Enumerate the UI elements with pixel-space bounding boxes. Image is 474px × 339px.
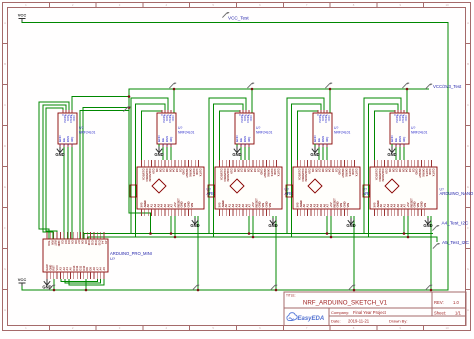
wire cell1 gnd stub bbox=[194, 216, 196, 218]
MCU module U8 ARDUINO_NANO bbox=[208, 160, 319, 216]
svg-text:H: H bbox=[467, 308, 469, 312]
svg-text:Company:: Company: bbox=[331, 310, 349, 315]
wire cell3 NRF bottom to nano bbox=[319, 147, 327, 160]
wire cell2 loop B bbox=[214, 104, 244, 237]
wire VCC_Test top rail / right side / bottom rail loop bbox=[22, 20, 448, 290]
svg-text:GND: GND bbox=[154, 152, 163, 157]
svg-text:GND: GND bbox=[55, 152, 64, 157]
svg-text:ARDUINO_NANO: ARDUINO_NANO bbox=[440, 191, 474, 196]
svg-text:VCC: VCC bbox=[327, 115, 331, 122]
wire NRF U2 loop A bbox=[39, 102, 69, 239]
svg-text:VCC_Test: VCC_Test bbox=[228, 16, 249, 21]
svg-text:1/1: 1/1 bbox=[455, 311, 461, 316]
MCU module U7 ARDUINO_NANO bbox=[130, 160, 241, 216]
svg-text:GND: GND bbox=[42, 285, 51, 290]
wire cell1 loop C bbox=[142, 110, 163, 160]
svg-text:E: E bbox=[467, 185, 469, 189]
svg-text:U?: U? bbox=[79, 126, 83, 130]
wire cell2 VCC drop from rail bbox=[251, 89, 253, 113]
title block bbox=[284, 292, 466, 326]
svg-text:2019-11-21: 2019-11-21 bbox=[348, 319, 370, 324]
wire cell1 A4 drop bbox=[170, 216, 172, 234]
wire cell4 A4 drop bbox=[403, 216, 405, 234]
wire cell4 5V drop bbox=[430, 216, 432, 290]
wire cell2 5V drop bbox=[275, 216, 277, 290]
ground NRF cell3 bbox=[310, 144, 319, 157]
RF module U3 NRF24L01 bbox=[157, 110, 195, 147]
wire cell4 loop C bbox=[375, 110, 396, 160]
wire cell2 NRF bottom to nano bbox=[241, 147, 249, 160]
svg-text:EasyEDA: EasyEDA bbox=[298, 316, 325, 322]
wire nano1 A4 pin to rail bbox=[150, 216, 152, 234]
svg-text:F: F bbox=[467, 226, 469, 230]
svg-text:D1/TX: D1/TX bbox=[431, 169, 435, 177]
svg-text:A5: A5 bbox=[102, 267, 106, 271]
svg-text:VIN: VIN bbox=[268, 203, 272, 208]
wire 3V3 drop to pro mini left bbox=[83, 108, 129, 240]
wire cell1 loop B bbox=[136, 104, 166, 237]
svg-text:TITLE:: TITLE: bbox=[286, 294, 296, 298]
svg-text:10: 10 bbox=[446, 3, 450, 7]
wire I2C A4 rail bbox=[84, 234, 433, 240]
svg-text:A5_Test_I2C: A5_Test_I2C bbox=[442, 240, 469, 245]
RF module U2 NRF24L01 bbox=[58, 110, 96, 147]
power flag VCC bottom left bbox=[18, 277, 27, 286]
ground nano cell1 bbox=[190, 218, 199, 228]
svg-text:GND: GND bbox=[268, 223, 277, 228]
svg-text:NRF24L01: NRF24L01 bbox=[79, 131, 96, 135]
svg-text:D: D bbox=[4, 144, 6, 148]
wire cell3 loop A bbox=[287, 98, 324, 234]
ground NRF U2 bbox=[55, 144, 64, 157]
svg-text:D1/TX: D1/TX bbox=[354, 169, 358, 177]
wire I2C A5 rail bbox=[88, 237, 437, 242]
svg-text:GND: GND bbox=[232, 152, 241, 157]
wire cell3 A4 drop bbox=[326, 216, 328, 234]
wire pro mini VCC pin to rail bbox=[53, 279, 55, 290]
svg-text:Date:: Date: bbox=[331, 319, 341, 324]
svg-text:A: A bbox=[4, 21, 6, 25]
svg-text:ARDUINO_PRO_MINI: ARDUINO_PRO_MINI bbox=[110, 251, 152, 256]
svg-text:NRF_ARDUINO_SKETCH_V1: NRF_ARDUINO_SKETCH_V1 bbox=[303, 300, 388, 307]
wire cell3 gnd stub bbox=[350, 216, 352, 218]
svg-text:U?: U? bbox=[411, 126, 415, 130]
wire cell1 VCC drop from rail bbox=[173, 89, 175, 113]
svg-text:NRF24L01: NRF24L01 bbox=[334, 131, 351, 135]
wire NRF U2 VCC to rail bbox=[72, 97, 129, 111]
MCU module U10 ARDUINO_NANO bbox=[363, 160, 474, 216]
svg-text:D1/TX: D1/TX bbox=[276, 169, 280, 177]
svg-text:GND: GND bbox=[190, 223, 199, 228]
svg-text:VCC: VCC bbox=[171, 115, 175, 122]
svg-text:U?: U? bbox=[256, 126, 260, 130]
svg-text:NRF24L01: NRF24L01 bbox=[256, 131, 273, 135]
svg-text:GND: GND bbox=[423, 223, 432, 228]
svg-text:Drawn By:: Drawn By: bbox=[389, 319, 407, 324]
wire pro mini pin to vcc rail bbox=[85, 279, 87, 290]
ground nano cell2 bbox=[268, 218, 277, 228]
svg-text:U?: U? bbox=[334, 126, 338, 130]
wire cell3 loop C bbox=[298, 110, 319, 160]
wire 3V3 drop to pro mini right bbox=[80, 111, 129, 240]
svg-text:A4_Test_I2C: A4_Test_I2C bbox=[442, 221, 469, 226]
wire cell1 A5 drop bbox=[174, 216, 176, 237]
wire NRF U2 loop B bbox=[43, 105, 66, 239]
svg-text:H: H bbox=[4, 308, 6, 312]
svg-text:GND: GND bbox=[346, 223, 355, 228]
wire NRF U2 bottom pins to pro mini bbox=[64, 147, 72, 239]
wire cell2 loop A bbox=[209, 98, 246, 234]
wire cell3 VCC drop from rail bbox=[329, 89, 331, 113]
wire NRF U2 loop C bbox=[46, 108, 63, 239]
wire cell3 loop B bbox=[292, 104, 322, 237]
wire VCC/3V3_Test rail bbox=[129, 89, 429, 216]
svg-text:A5: A5 bbox=[104, 241, 108, 245]
RF module U5 NRF24L01 bbox=[313, 110, 351, 147]
wire cell4 A5 drop bbox=[407, 216, 409, 237]
ground NRF cell1 bbox=[154, 144, 163, 157]
svg-text:U?: U? bbox=[178, 126, 182, 130]
svg-text:NRF24L01: NRF24L01 bbox=[178, 131, 195, 135]
netflag slashes bbox=[48, 12, 439, 290]
ground nano cell3 bbox=[346, 218, 355, 228]
svg-text:REV:: REV: bbox=[434, 300, 444, 305]
svg-text:D: D bbox=[467, 144, 469, 148]
wire cell4 NRF bottom to nano bbox=[396, 147, 404, 160]
svg-text:B: B bbox=[4, 62, 6, 66]
svg-text:D1/TX: D1/TX bbox=[198, 169, 202, 177]
wire cell3 A5 drop bbox=[330, 216, 332, 237]
RF module U4 NRF24L01 bbox=[235, 110, 273, 147]
svg-text:VIN: VIN bbox=[190, 203, 194, 208]
power flag VCC top left bbox=[18, 13, 27, 22]
MCU module U1 ARDUINO_PRO_MINI bbox=[43, 232, 152, 279]
svg-text:VCC: VCC bbox=[18, 277, 27, 282]
wire cell4 VCC drop from rail bbox=[406, 89, 408, 113]
svg-text:G: G bbox=[467, 267, 469, 271]
svg-text:B: B bbox=[467, 62, 469, 66]
RF module U6 NRF24L01 bbox=[390, 110, 428, 147]
svg-text:G: G bbox=[4, 267, 6, 271]
svg-text:A: A bbox=[467, 21, 469, 25]
wire pro mini bottom nested 3 bbox=[69, 279, 104, 285]
wire pro mini bottom nested 1 bbox=[61, 279, 97, 282]
wire cell3 5V drop bbox=[353, 216, 355, 290]
svg-text:GND: GND bbox=[387, 152, 396, 157]
wire cell2 loop C bbox=[220, 110, 241, 160]
svg-text:C: C bbox=[467, 103, 469, 107]
svg-text:Sheet:: Sheet: bbox=[434, 311, 446, 316]
MCU module U9 ARDUINO_NANO bbox=[286, 160, 397, 216]
svg-text:VCC/3V3_Test: VCC/3V3_Test bbox=[433, 84, 462, 89]
wire cell2 gnd stub bbox=[272, 216, 274, 218]
svg-text:VIN: VIN bbox=[423, 203, 427, 208]
ground NRF cell4 bbox=[387, 144, 396, 157]
svg-text:VCC: VCC bbox=[404, 115, 408, 122]
wire pro mini bottom nested 2 bbox=[65, 279, 101, 283]
svg-text:NRF24L01: NRF24L01 bbox=[411, 131, 428, 135]
wire cell4 loop A bbox=[364, 98, 401, 234]
ground nano cell4 bbox=[423, 218, 432, 228]
wire cell2 A4 drop bbox=[248, 216, 250, 234]
wire cell4 gnd stub bbox=[427, 216, 429, 218]
wire cell1 5V drop bbox=[197, 216, 199, 290]
svg-text:C: C bbox=[4, 103, 6, 107]
wire cell1 loop A bbox=[131, 98, 168, 234]
wire cell1 NRF bottom to nano bbox=[163, 147, 171, 160]
wire cell2 A5 drop bbox=[252, 216, 254, 237]
ground NRF cell2 bbox=[232, 144, 241, 157]
svg-text:E: E bbox=[4, 185, 6, 189]
svg-text:VCC: VCC bbox=[18, 13, 27, 18]
ground pro mini bbox=[42, 279, 51, 290]
svg-text:F: F bbox=[4, 226, 6, 230]
svg-text:10: 10 bbox=[446, 326, 450, 330]
svg-text:Final Year Project: Final Year Project bbox=[353, 310, 387, 315]
svg-text:VCC: VCC bbox=[249, 115, 253, 122]
svg-text:VCC: VCC bbox=[72, 115, 76, 122]
svg-text:U?: U? bbox=[110, 256, 116, 261]
svg-text:VIN: VIN bbox=[346, 203, 350, 208]
wire cell4 loop B bbox=[369, 104, 399, 237]
svg-text:GND: GND bbox=[310, 152, 319, 157]
svg-text:1.0: 1.0 bbox=[453, 300, 459, 305]
EasyEDA logo bbox=[287, 313, 324, 323]
